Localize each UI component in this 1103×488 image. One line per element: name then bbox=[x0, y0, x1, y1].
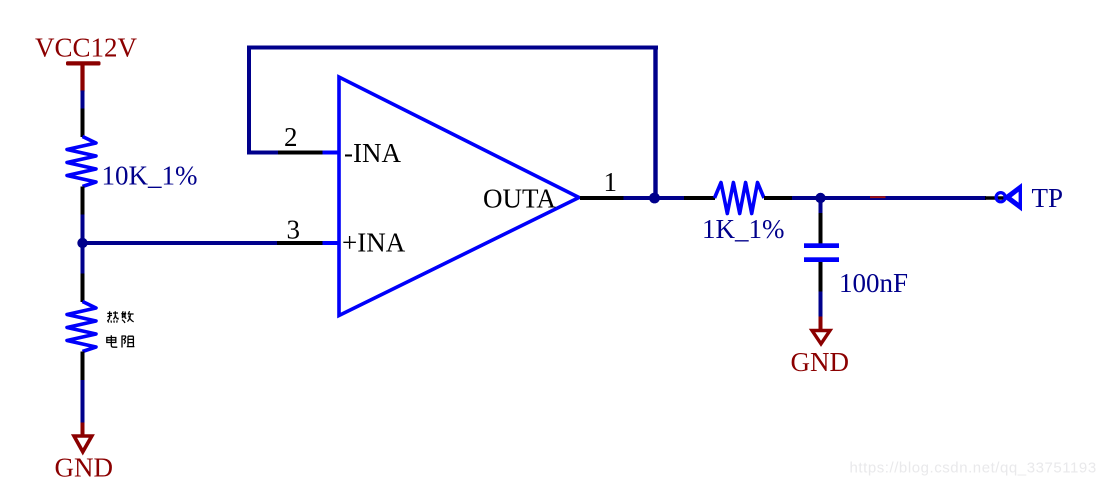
wire: R1 to node A bbox=[81, 215, 85, 245]
svg-text:OUTA: OUTA bbox=[483, 184, 556, 214]
pin name +INA bbox=[342, 228, 406, 258]
wire: VCC stub to R1 bbox=[81, 91, 85, 110]
svg-text:TP: TP bbox=[1032, 183, 1064, 213]
capacitor C1 value label 100nF bbox=[839, 268, 908, 298]
svg-text:100nF: 100nF bbox=[839, 268, 908, 298]
pin name -INA bbox=[344, 138, 401, 168]
test point TP label bbox=[1032, 183, 1064, 213]
ground GND right stub bbox=[819, 317, 823, 331]
resistor R1 pin 2 bbox=[81, 187, 85, 216]
wire: output pin to node B bbox=[624, 196, 656, 200]
op-amp U1 body bbox=[339, 77, 579, 316]
svg-text:GND: GND bbox=[55, 453, 114, 483]
svg-text:https://blog.csdn.net/qq_33751: https://blog.csdn.net/qq_33751193 bbox=[850, 460, 1097, 477]
ground GND left label bbox=[55, 453, 114, 483]
node B junction bbox=[649, 193, 660, 204]
resistor R2 pin 2 bbox=[764, 196, 792, 200]
power port VCC12V label bbox=[35, 32, 138, 62]
resistor R1 value label 10K_1% bbox=[102, 161, 198, 191]
pin number 1 label bbox=[604, 167, 618, 197]
svg-text:10K_1%: 10K_1% bbox=[102, 161, 198, 191]
resistor R1 body (10K_1%) bbox=[67, 137, 96, 187]
capacitor C1 plates bbox=[804, 243, 839, 262]
resistor R2 pin 1 bbox=[684, 196, 715, 200]
resistor R2 value label 1K_1% bbox=[702, 214, 785, 244]
thermistor label 热敏 (line 1) bbox=[107, 311, 134, 323]
test point TP pin bbox=[985, 196, 1004, 199]
node A junction bbox=[77, 238, 87, 248]
wire: capacitor to GND bbox=[819, 292, 823, 318]
feedback wire left vertical bbox=[247, 46, 251, 155]
svg-text:3: 3 bbox=[287, 215, 301, 245]
wire: node A down to thermistor bbox=[81, 243, 85, 274]
svg-text:1K_1%: 1K_1% bbox=[702, 214, 785, 244]
svg-text:GND: GND bbox=[791, 347, 850, 377]
test point TP symbol bbox=[996, 183, 1022, 211]
watermark csdn url text bbox=[850, 460, 1097, 477]
resistor R1 pin 1 bbox=[81, 109, 85, 138]
wire: node C down to capacitor bbox=[819, 198, 823, 214]
power port VCC12V bar symbol bbox=[66, 61, 101, 91]
svg-text:+INA: +INA bbox=[342, 228, 406, 258]
thermistor RT body bbox=[67, 302, 96, 352]
ground GND left stub bbox=[81, 423, 85, 436]
thermistor RT pin 2 bbox=[81, 352, 85, 381]
wire: node B to R2 bbox=[655, 196, 686, 200]
svg-text:2: 2 bbox=[284, 122, 298, 152]
pin name OUTA bbox=[483, 184, 556, 214]
ground GND right label bbox=[791, 347, 850, 377]
wire: R2 to node C bbox=[792, 196, 821, 200]
thermistor RT pin 1 bbox=[81, 274, 85, 303]
capacitor C1 pin 1 bbox=[819, 213, 823, 244]
wire: thermistor to GND bbox=[81, 380, 85, 423]
op-amp U1 pin 1 (output) bbox=[580, 196, 624, 200]
thermistor label 电阻 (line 2) bbox=[107, 335, 135, 347]
svg-text:1: 1 bbox=[604, 167, 618, 197]
node C junction bbox=[815, 193, 825, 203]
feedback wire right vertical bbox=[653, 46, 657, 199]
svg-text:VCC12V: VCC12V bbox=[35, 32, 138, 62]
op-amp U1 pin 3 (non-inverting input) bbox=[277, 241, 340, 245]
feedback wire top horizontal bbox=[247, 46, 658, 50]
wire: node A to op-amp non-inverting input bbox=[83, 241, 279, 245]
wire: node C to test point bbox=[821, 196, 987, 200]
pin number 2 label bbox=[284, 122, 298, 152]
ground GND left symbol bbox=[74, 436, 92, 452]
op-amp U1 pin 2 (inverting input) bbox=[278, 151, 340, 155]
watermark red dash on wire bbox=[870, 196, 886, 198]
pin number 3 label bbox=[287, 215, 301, 245]
svg-text:-INA: -INA bbox=[344, 138, 401, 168]
resistor R2 body (1K_1%) bbox=[715, 183, 765, 214]
feedback wire stub to pin 2 bbox=[247, 151, 279, 155]
capacitor C1 pin 2 bbox=[819, 262, 823, 292]
ground GND right symbol bbox=[812, 331, 830, 344]
